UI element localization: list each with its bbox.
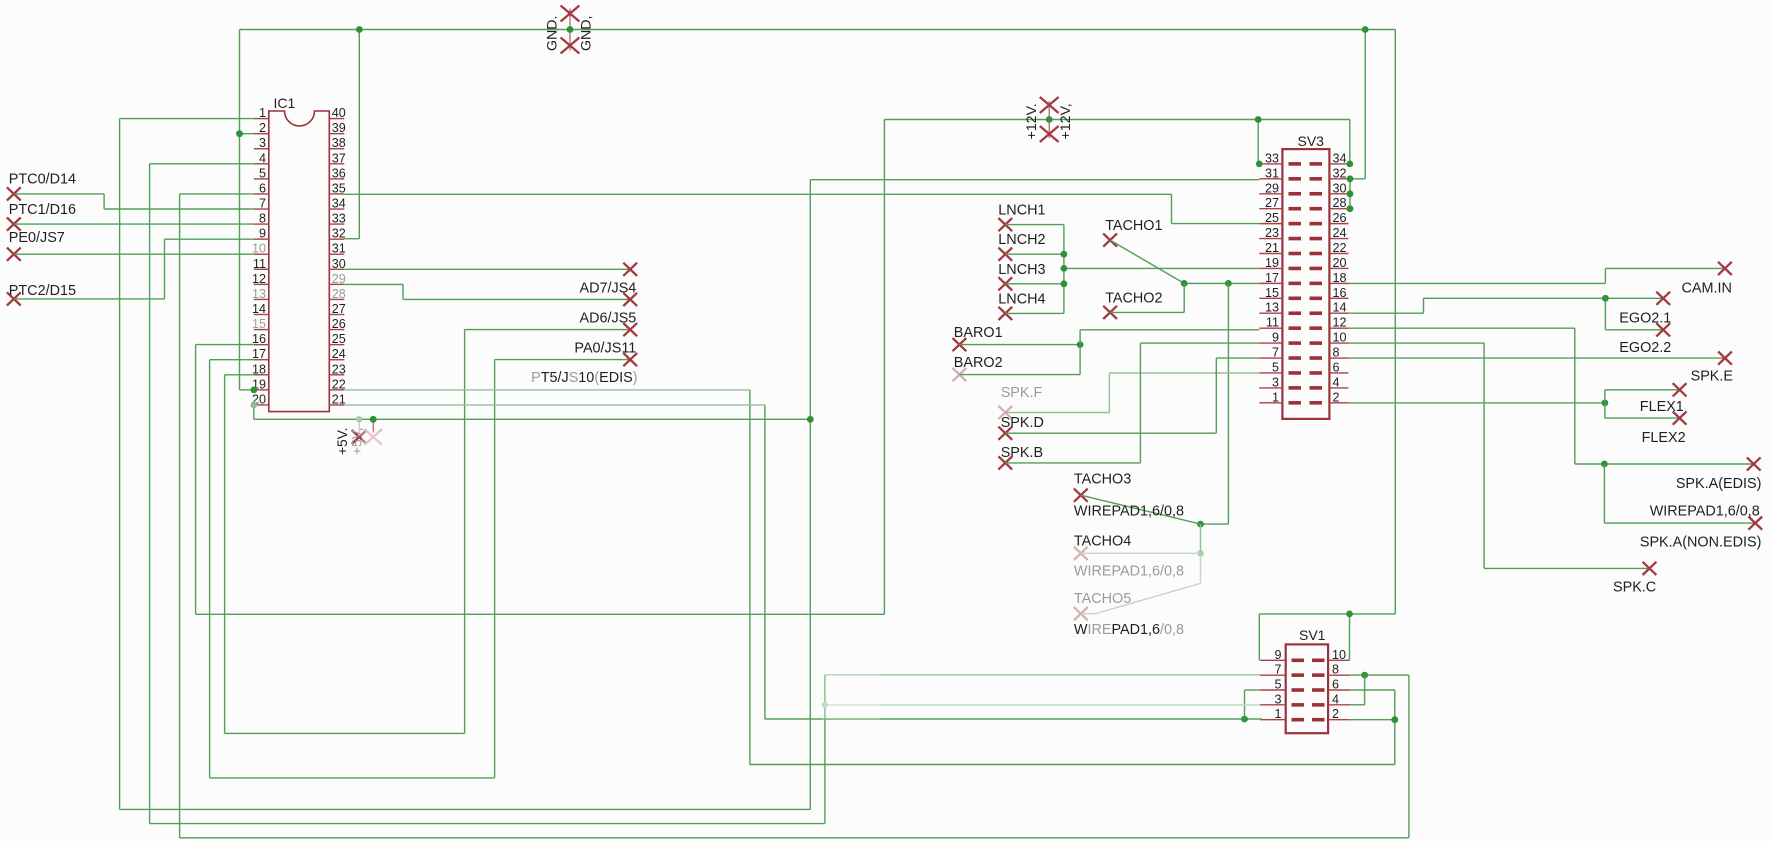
svg-text:LNCH1: LNCH1	[998, 203, 1045, 219]
svg-text:16: 16	[1333, 286, 1347, 300]
svg-text:7: 7	[1272, 346, 1279, 360]
svg-text:11: 11	[253, 257, 266, 271]
svg-text:9: 9	[1274, 648, 1281, 662]
svg-text:TACHO5: TACHO5	[1074, 591, 1131, 607]
svg-text:27: 27	[1265, 196, 1279, 210]
svg-text:+12V,: +12V,	[1058, 103, 1074, 139]
svg-text:14: 14	[1333, 301, 1347, 315]
svg-text:8: 8	[259, 212, 266, 226]
svg-text:22: 22	[1333, 241, 1347, 255]
svg-text:2: 2	[1332, 707, 1339, 721]
svg-text:EGO2.1: EGO2.1	[1619, 310, 1671, 326]
svg-text:21: 21	[332, 392, 346, 406]
svg-text:6: 6	[259, 181, 266, 195]
svg-text:SPK.E: SPK.E	[1691, 369, 1733, 385]
svg-text:34: 34	[332, 197, 346, 211]
svg-text:29: 29	[1265, 181, 1279, 195]
svg-text:25: 25	[332, 332, 346, 346]
svg-text:4: 4	[1332, 692, 1339, 706]
svg-text:WIREPAD1,6/0,8: WIREPAD1,6/0,8	[1074, 503, 1184, 519]
svg-text:AD6/JS5: AD6/JS5	[580, 310, 637, 326]
svg-text:27: 27	[332, 302, 346, 316]
svg-text:5: 5	[1272, 360, 1279, 374]
svg-text:11: 11	[1266, 316, 1279, 330]
svg-text:SPK.D: SPK.D	[1001, 415, 1044, 431]
svg-text:7: 7	[1274, 663, 1281, 677]
svg-text:2: 2	[259, 121, 266, 135]
svg-text:10: 10	[1333, 331, 1347, 345]
svg-text:+5V.: +5V.	[335, 428, 350, 456]
svg-text:33: 33	[1265, 151, 1279, 165]
svg-text:34: 34	[1333, 151, 1347, 165]
svg-text:SPK.B: SPK.B	[1001, 445, 1043, 461]
svg-text:32: 32	[1333, 166, 1347, 180]
svg-text:LNCH3: LNCH3	[998, 262, 1045, 278]
svg-text:12: 12	[252, 272, 266, 286]
svg-text:SV1: SV1	[1299, 627, 1326, 643]
svg-text:38: 38	[332, 136, 346, 150]
svg-text:PE0/JS7: PE0/JS7	[9, 230, 65, 246]
svg-text:BARO1: BARO1	[954, 325, 1003, 341]
svg-text:17: 17	[252, 347, 266, 361]
svg-text:26: 26	[1333, 211, 1347, 225]
svg-text:25: 25	[1265, 211, 1279, 225]
svg-text:20: 20	[1333, 256, 1347, 270]
svg-text:30: 30	[332, 257, 346, 271]
svg-text:WIREPAD1,6/0,8: WIREPAD1,6/0,8	[1650, 503, 1760, 519]
svg-text:13: 13	[252, 287, 266, 301]
svg-text:PT5/JS10(EDIS): PT5/JS10(EDIS)	[531, 370, 637, 386]
svg-text:WIREPAD1,6/0,8: WIREPAD1,6/0,8	[1074, 622, 1184, 638]
svg-text:10: 10	[1332, 648, 1346, 662]
svg-text:SPK.A(EDIS): SPK.A(EDIS)	[1676, 476, 1762, 492]
svg-text:28: 28	[1333, 196, 1347, 210]
svg-text:33: 33	[332, 212, 346, 226]
svg-text:31: 31	[332, 242, 346, 256]
svg-text:5: 5	[1274, 678, 1281, 692]
svg-text:BARO2: BARO2	[954, 355, 1003, 371]
svg-text:18: 18	[1333, 271, 1347, 285]
svg-text:24: 24	[332, 347, 346, 361]
svg-text:7: 7	[259, 197, 266, 211]
svg-text:4: 4	[259, 151, 266, 165]
svg-text:PTC1/D16: PTC1/D16	[9, 202, 76, 218]
svg-text:26: 26	[332, 317, 346, 331]
svg-text:PA0/JS11: PA0/JS11	[574, 340, 636, 356]
svg-text:TACHO1: TACHO1	[1105, 218, 1162, 234]
svg-text:15: 15	[252, 317, 266, 331]
svg-text:37: 37	[332, 151, 346, 165]
svg-text:6: 6	[1332, 678, 1339, 692]
svg-text:40: 40	[332, 106, 346, 120]
svg-text:14: 14	[252, 302, 266, 316]
svg-text:3: 3	[259, 136, 266, 150]
svg-text:21: 21	[1265, 241, 1279, 255]
svg-text:AD7/JS4: AD7/JS4	[580, 280, 637, 296]
svg-text:28: 28	[332, 287, 346, 301]
svg-text:35: 35	[332, 181, 346, 195]
svg-text:16: 16	[252, 332, 266, 346]
svg-text:LNCH2: LNCH2	[998, 232, 1045, 248]
svg-text:39: 39	[332, 121, 346, 135]
svg-text:PTC0/D14: PTC0/D14	[9, 172, 76, 188]
svg-text:5: 5	[259, 166, 266, 180]
svg-text:8: 8	[1332, 663, 1339, 677]
svg-text:15: 15	[1265, 286, 1279, 300]
svg-text:2: 2	[1333, 390, 1340, 404]
svg-text:1: 1	[259, 106, 266, 120]
svg-text:FLEX2: FLEX2	[1642, 430, 1686, 446]
svg-text:1: 1	[1272, 390, 1279, 404]
svg-text:9: 9	[1272, 331, 1279, 345]
svg-text:TACHO4: TACHO4	[1074, 533, 1131, 549]
svg-text:4: 4	[1333, 375, 1340, 389]
svg-text:6: 6	[1333, 360, 1340, 374]
svg-text:EGO2.2: EGO2.2	[1619, 340, 1671, 356]
svg-text:13: 13	[1265, 301, 1279, 315]
svg-text:32: 32	[332, 227, 346, 241]
svg-text:CAM.IN: CAM.IN	[1682, 281, 1732, 297]
svg-text:17: 17	[1265, 271, 1279, 285]
svg-text:29: 29	[332, 272, 346, 286]
svg-text:12: 12	[1333, 316, 1347, 330]
svg-text:8: 8	[1333, 346, 1340, 360]
svg-text:9: 9	[259, 227, 266, 241]
svg-text:SPK.C: SPK.C	[1613, 580, 1656, 596]
svg-text:IC1: IC1	[274, 95, 296, 111]
svg-text:1: 1	[1274, 707, 1281, 721]
svg-text:FLEX1: FLEX1	[1640, 399, 1684, 415]
svg-text:24: 24	[1333, 226, 1347, 240]
svg-text:3: 3	[1272, 375, 1279, 389]
svg-text:19: 19	[1265, 256, 1279, 270]
svg-text:31: 31	[1265, 166, 1279, 180]
svg-text:22: 22	[332, 377, 346, 391]
svg-text:GND.: GND.	[545, 16, 561, 51]
svg-text:LNCH4: LNCH4	[998, 291, 1045, 307]
svg-text:23: 23	[1265, 226, 1279, 240]
svg-text:TACHO2: TACHO2	[1105, 290, 1162, 306]
svg-text:SPK.F: SPK.F	[1001, 385, 1043, 401]
svg-text:10: 10	[252, 242, 266, 256]
svg-text:SV3: SV3	[1298, 133, 1325, 149]
svg-text:30: 30	[1333, 181, 1347, 195]
svg-text:TACHO3: TACHO3	[1074, 472, 1131, 488]
svg-text:18: 18	[252, 362, 266, 376]
svg-text:WIREPAD1,6/0,8: WIREPAD1,6/0,8	[1074, 563, 1184, 579]
svg-text:3: 3	[1274, 692, 1281, 706]
svg-text:+12V.: +12V.	[1024, 103, 1040, 139]
svg-text:PTC2/D15: PTC2/D15	[9, 283, 76, 299]
svg-text:23: 23	[332, 362, 346, 376]
svg-text:GND,: GND,	[579, 16, 595, 51]
svg-text:SPK.A(NON.EDIS): SPK.A(NON.EDIS)	[1640, 534, 1762, 550]
svg-text:36: 36	[332, 166, 346, 180]
